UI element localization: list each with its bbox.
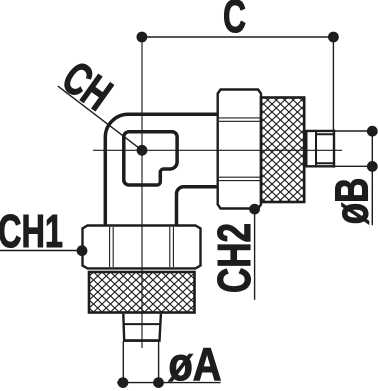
dot C right	[328, 32, 339, 43]
elbow body outline	[105, 114, 217, 225]
collar (horizontal branch)	[305, 130, 334, 168]
CH2 leader	[254, 209, 256, 300]
svg-text:CH2: CH2	[208, 223, 260, 293]
collar (vertical branch)	[123, 314, 161, 341]
stem inner rect (horizontal)	[316, 134, 334, 163]
CH1 underline	[0, 250, 82, 252]
svg-text:øA: øA	[169, 338, 222, 390]
dot elbow center	[137, 145, 148, 156]
collar step line	[124, 323, 160, 325]
hex nut CH1 (vertical branch)	[83, 226, 201, 269]
dot oA right	[153, 377, 164, 388]
dot CH1	[77, 245, 88, 256]
knurl (vertical branch)	[89, 272, 195, 313]
collar left edge (horizontal)	[305, 130, 307, 167]
collar step line (horizontal)	[315, 132, 317, 165]
oB extension lines	[334, 131, 372, 166]
centerline horizontal	[93, 149, 342, 151]
svg-text:C: C	[223, 0, 246, 42]
oA extension lines	[123, 342, 158, 383]
knurl (horizontal branch)	[261, 98, 304, 203]
collar bottom edge	[123, 339, 161, 342]
oA dimension line	[117, 382, 221, 384]
dot C left	[137, 32, 148, 43]
svg-text:CH1: CH1	[0, 205, 63, 257]
dot CH2	[249, 204, 260, 215]
oB dimension line	[371, 131, 373, 225]
dimension C line	[142, 36, 334, 38]
inner pocket	[124, 132, 177, 185]
dimension C right extension	[332, 37, 334, 131]
elbow inner corner	[177, 187, 218, 226]
svg-text:CH: CH	[53, 51, 121, 121]
centerline vertical	[141, 37, 143, 348]
hex CH1 facet lines	[110, 227, 174, 267]
hex facet lines (horizontal)	[219, 118, 260, 181]
CH leader line	[58, 86, 142, 150]
svg-text:øB: øB	[325, 178, 377, 225]
dot oB bottom	[367, 161, 378, 172]
dot oA left	[118, 377, 129, 388]
hex nut (horizontal branch)	[218, 90, 261, 209]
dot oB top	[367, 126, 378, 137]
